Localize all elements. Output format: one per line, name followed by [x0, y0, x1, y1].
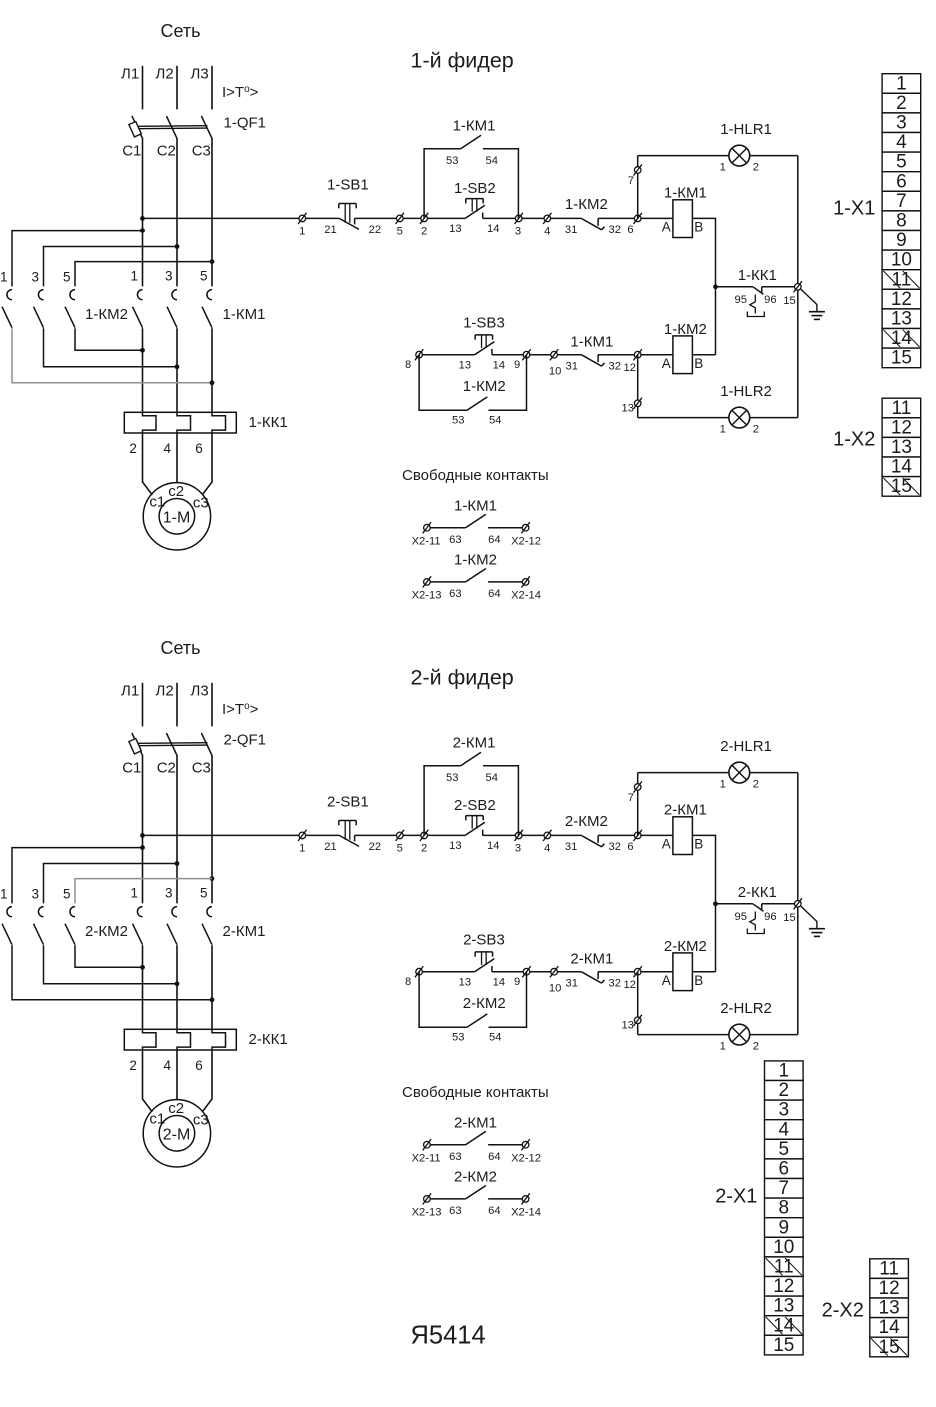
svg-text:6: 6 [195, 441, 203, 456]
terminal cell 14 [765, 1316, 804, 1336]
svg-text:1: 1 [720, 423, 726, 435]
svg-text:Свободные контакты: Свободные контакты [402, 1084, 549, 1101]
svg-text:54: 54 [489, 1032, 501, 1044]
svg-text:5: 5 [397, 843, 403, 855]
svg-text:13: 13 [459, 360, 471, 372]
terminal cell 3 [765, 1100, 804, 1120]
terminal cell 14 [870, 1318, 909, 1338]
svg-text:53: 53 [452, 415, 464, 427]
wire [638, 155, 729, 157]
svg-text:32: 32 [609, 841, 621, 853]
wire [691, 971, 716, 973]
no-contact 1-КМ2 53-54 branch [419, 355, 467, 411]
svg-text:2-КМ2: 2-КМ2 [463, 995, 506, 1012]
svg-text:64: 64 [488, 534, 500, 546]
svg-text:63: 63 [449, 1151, 461, 1163]
terminal 6 [634, 213, 642, 224]
terminal 3 [515, 830, 523, 841]
terminal 12 [634, 966, 642, 977]
svg-text:2-КМ2: 2-КМ2 [85, 923, 128, 940]
svg-text:9: 9 [779, 1217, 790, 1238]
svg-text:15: 15 [891, 476, 912, 497]
svg-text:1-КМ1: 1-КМ1 [570, 333, 613, 350]
wire [750, 1034, 798, 1036]
motor 1-М [143, 483, 210, 550]
wire phase rail [176, 755, 178, 904]
wire motor lead 6 [202, 433, 212, 495]
svg-text:1: 1 [299, 226, 305, 238]
svg-text:63: 63 [449, 588, 461, 600]
wire coil link [691, 218, 716, 354]
svg-text:1-SB2: 1-SB2 [454, 180, 496, 197]
terminal cell 15 [870, 1337, 909, 1357]
svg-text:53: 53 [452, 1032, 464, 1044]
terminal cell 14 [882, 457, 921, 477]
svg-text:3: 3 [165, 269, 173, 284]
node tap [140, 845, 145, 850]
ground [801, 289, 817, 312]
terminal cell 11 [882, 270, 921, 290]
svg-text:4: 4 [544, 226, 550, 238]
svg-text:14: 14 [493, 360, 505, 372]
terminal cell 15 [882, 477, 921, 497]
svg-text:13: 13 [449, 840, 461, 852]
wire rung2 [598, 971, 673, 973]
contactor contact 2-КМ1 pole [207, 907, 212, 917]
wire lamp1 branch [637, 156, 639, 219]
svg-text:2: 2 [129, 1058, 137, 1073]
svg-text:2: 2 [129, 441, 137, 456]
svg-text:12: 12 [624, 979, 636, 991]
svg-text:1: 1 [0, 270, 8, 285]
svg-text:2-SB1: 2-SB1 [327, 793, 369, 810]
svg-text:2: 2 [753, 423, 759, 435]
svg-text:1: 1 [720, 1040, 726, 1052]
svg-text:96: 96 [764, 911, 776, 923]
svg-text:1-й фидер: 1-й фидер [411, 49, 514, 73]
svg-text:С1: С1 [122, 760, 141, 777]
svg-text:9: 9 [514, 976, 520, 988]
coil 1-КМ2 [673, 336, 693, 374]
contactor contact 2-КМ2 pole [38, 907, 43, 917]
svg-text:В: В [694, 356, 703, 371]
wire rung2 [492, 354, 581, 356]
wire motor lead 2 [143, 1050, 153, 1112]
svg-text:с2: с2 [168, 483, 184, 500]
svg-text:10: 10 [549, 983, 561, 995]
terminal cell 1 [765, 1061, 804, 1081]
wire rung1 [598, 217, 673, 219]
svg-text:Сеть: Сеть [161, 21, 201, 41]
svg-text:1-SB3: 1-SB3 [463, 315, 505, 332]
svg-text:15: 15 [773, 1335, 794, 1356]
svg-text:Свободные контакты: Свободные контакты [402, 467, 549, 484]
svg-text:1-SB1: 1-SB1 [327, 176, 369, 193]
svg-text:13: 13 [891, 309, 912, 330]
terminal cell 8 [882, 211, 921, 231]
wire phase rail [142, 138, 144, 287]
no-contact 2-КМ1 53-54 branch [424, 766, 461, 836]
node tap [175, 861, 180, 866]
terminal 3 [515, 213, 523, 224]
svg-text:12: 12 [891, 289, 912, 310]
terminal cell 13 [765, 1296, 804, 1316]
svg-text:95: 95 [735, 294, 747, 306]
svg-text:X2-14: X2-14 [511, 590, 541, 602]
node join [210, 997, 215, 1002]
svg-text:1-QF1: 1-QF1 [224, 115, 267, 132]
svg-text:3: 3 [31, 887, 39, 902]
wire [750, 417, 798, 419]
svg-text:31: 31 [566, 978, 578, 990]
wire rung2 [419, 354, 475, 356]
svg-text:1-КК1: 1-КК1 [738, 267, 777, 284]
svg-text:13: 13 [622, 1020, 634, 1032]
node join [140, 965, 145, 970]
terminal cell 15 [882, 348, 921, 368]
node coil junction [713, 284, 718, 289]
svg-text:1: 1 [130, 269, 138, 284]
terminal cell 4 [765, 1120, 804, 1140]
svg-text:15: 15 [891, 348, 912, 369]
terminal cell 9 [882, 231, 921, 251]
svg-text:2-КМ1: 2-КМ1 [454, 1114, 497, 1131]
no-contact 2-КМ2 53-54 branch [419, 972, 467, 1028]
wire [750, 772, 798, 774]
svg-text:10: 10 [773, 1237, 794, 1258]
svg-text:21: 21 [324, 224, 336, 236]
svg-text:1-КМ1: 1-КМ1 [223, 306, 266, 323]
thermal element pole [177, 1030, 191, 1051]
svg-text:22: 22 [369, 224, 381, 236]
svg-text:10: 10 [891, 250, 912, 271]
svg-text:2: 2 [753, 162, 759, 174]
svg-text:3: 3 [515, 843, 521, 855]
svg-text:1-HLR1: 1-HLR1 [720, 121, 772, 138]
terminal cell 2 [882, 93, 921, 113]
svg-text:14: 14 [773, 1315, 795, 1336]
contactor contact 1-КМ1 pole [137, 290, 142, 300]
wire reversing lower [44, 945, 178, 984]
wire [716, 903, 753, 905]
svg-text:5: 5 [63, 270, 71, 285]
svg-text:5: 5 [397, 226, 403, 238]
pushbutton 1-SB3 [475, 342, 495, 355]
terminal cell 13 [882, 437, 921, 457]
svg-text:1-КМ1: 1-КМ1 [454, 497, 497, 514]
svg-text:14: 14 [487, 223, 499, 235]
thermal-relay 1-КК1 box [124, 412, 236, 433]
wire rung2 [598, 354, 673, 356]
ground [801, 906, 817, 929]
svg-text:12: 12 [891, 417, 912, 438]
wire reversing upper [12, 848, 143, 904]
svg-text:I>To>: I>To> [222, 701, 259, 718]
svg-text:21: 21 [324, 841, 336, 853]
thermal element pole [212, 413, 226, 434]
wire [211, 683, 213, 727]
svg-text:8: 8 [405, 359, 411, 371]
free no-contact 2-КМ1 63-64 [423, 1139, 431, 1150]
wire [762, 286, 798, 288]
svg-text:54: 54 [486, 772, 498, 784]
svg-text:Л3: Л3 [191, 66, 209, 83]
wire [762, 903, 798, 905]
lamp 1-HLR2 [729, 407, 750, 428]
svg-text:А: А [662, 356, 671, 371]
svg-text:14: 14 [487, 840, 499, 852]
svg-text:64: 64 [488, 1205, 500, 1217]
svg-text:1-HLR2: 1-HLR2 [720, 383, 772, 400]
svg-text:с1: с1 [149, 493, 165, 510]
terminal cell 12 [882, 418, 921, 438]
contactor contact 1-КМ2 pole [70, 290, 75, 300]
terminal 13 [634, 398, 642, 409]
wire phase rail [211, 755, 213, 904]
node join [210, 380, 215, 385]
node tap [140, 228, 145, 233]
svg-text:В: В [694, 973, 703, 988]
svg-text:7: 7 [628, 175, 634, 187]
thermal element pole [177, 413, 191, 434]
terminal cell 8 [765, 1198, 804, 1218]
terminal cell 11 [882, 398, 921, 418]
terminal 12 [634, 349, 642, 360]
svg-text:15: 15 [783, 912, 795, 924]
svg-text:2-КК1: 2-КК1 [738, 884, 777, 901]
thermal element pole [143, 413, 157, 434]
terminal 4 [543, 830, 551, 841]
svg-text:с3: с3 [193, 495, 209, 512]
svg-text:8: 8 [405, 976, 411, 988]
svg-text:I>To>: I>To> [222, 84, 259, 101]
node join [140, 348, 145, 353]
nc-contact 2-КМ2 31-32 [581, 835, 601, 846]
svg-text:2-КМ2: 2-КМ2 [565, 813, 608, 830]
svg-text:2: 2 [421, 226, 427, 238]
svg-text:5: 5 [200, 886, 208, 901]
svg-text:2: 2 [753, 1040, 759, 1052]
wire phase rail [142, 755, 144, 904]
svg-text:1-КМ1: 1-КМ1 [664, 185, 707, 202]
motor 2-М [143, 1100, 210, 1167]
terminal 7 [634, 164, 642, 175]
free no-contact 2-КМ2 63-64 [423, 1193, 431, 1204]
contactor contact 1-КМ2 pole [38, 290, 43, 300]
svg-text:X2-13: X2-13 [412, 1207, 442, 1219]
svg-text:32: 32 [609, 978, 621, 990]
coil 1-КМ1 [673, 200, 693, 238]
svg-text:с3: с3 [193, 1112, 209, 1129]
svg-text:64: 64 [488, 1151, 500, 1163]
wire reversing lower [12, 945, 212, 1000]
svg-text:13: 13 [449, 223, 461, 235]
svg-text:А: А [662, 837, 671, 852]
wire rung1 [355, 217, 466, 219]
terminal 5 [396, 213, 404, 224]
wire [638, 1034, 729, 1036]
wire [638, 772, 729, 774]
svg-text:2-М: 2-М [163, 1126, 191, 1143]
wire [142, 66, 144, 110]
terminal 7 [634, 781, 642, 792]
wire [211, 66, 213, 110]
wire control feed [143, 834, 340, 836]
svg-text:с2: с2 [168, 1100, 184, 1117]
svg-text:12: 12 [773, 1276, 794, 1297]
coil 2-КМ2 [673, 953, 693, 991]
terminal cell 13 [882, 309, 921, 329]
svg-text:1: 1 [720, 779, 726, 791]
svg-text:54: 54 [486, 155, 498, 167]
contactor contact 2-КМ2 pole [70, 907, 75, 917]
wire reversing lower [75, 328, 143, 350]
svg-text:X2-11: X2-11 [412, 535, 441, 547]
svg-text:6: 6 [627, 841, 633, 853]
svg-text:7: 7 [779, 1178, 790, 1199]
terminal 6 [634, 830, 642, 841]
svg-text:63: 63 [449, 1205, 461, 1217]
svg-text:63: 63 [449, 534, 461, 546]
thermal-relay 2-КК1 box [124, 1029, 236, 1050]
svg-text:X2-12: X2-12 [511, 535, 541, 547]
pushbutton 2-SB1 [339, 835, 359, 846]
svg-text:1: 1 [0, 887, 8, 902]
svg-text:С2: С2 [157, 760, 176, 777]
wire motor lead 2 [143, 433, 153, 495]
wire motor lead 6 [202, 1050, 212, 1112]
svg-text:15: 15 [879, 1337, 900, 1358]
svg-text:1-X2: 1-X2 [833, 429, 875, 451]
svg-text:X2-12: X2-12 [511, 1152, 541, 1164]
svg-text:7: 7 [896, 191, 907, 212]
svg-text:14: 14 [891, 328, 913, 349]
contactor contact 1-КМ1 pole [207, 290, 212, 300]
svg-text:1: 1 [779, 1061, 790, 1082]
terminal cell 1 [882, 74, 921, 94]
node control tap [140, 833, 145, 838]
wire phase rail [211, 138, 213, 287]
svg-text:2-X2: 2-X2 [822, 1300, 864, 1322]
svg-text:14: 14 [879, 1317, 901, 1338]
pushbutton 2-SB2 [465, 822, 485, 835]
contactor contact 2-КМ1 pole [172, 907, 177, 917]
svg-text:4: 4 [164, 441, 172, 456]
node tap [210, 259, 215, 264]
svg-text:2-QF1: 2-QF1 [224, 732, 267, 749]
wire rung2 [492, 971, 581, 973]
wire motor lead 4 [176, 433, 178, 483]
svg-text:1-КМ2: 1-КМ2 [565, 196, 608, 213]
terminal cell 6 [882, 172, 921, 192]
svg-text:9: 9 [896, 230, 907, 251]
terminal 15 [794, 281, 802, 292]
svg-text:53: 53 [446, 772, 458, 784]
wire rung1 [355, 834, 466, 836]
svg-text:1-КМ2: 1-КМ2 [85, 306, 128, 323]
terminal 8 [415, 349, 423, 360]
wire reversing upper [12, 231, 143, 287]
svg-text:11: 11 [892, 398, 912, 419]
terminal 15 [794, 898, 802, 909]
wire [638, 417, 729, 419]
svg-text:96: 96 [764, 294, 776, 306]
terminal cell 13 [870, 1298, 909, 1318]
wire [176, 683, 178, 727]
svg-text:Я5414: Я5414 [411, 1322, 486, 1350]
svg-text:2-КМ2: 2-КМ2 [664, 938, 707, 955]
terminal cell 7 [882, 191, 921, 211]
node join [175, 981, 180, 986]
svg-text:6: 6 [627, 224, 633, 236]
terminal 1 [298, 213, 306, 224]
svg-text:2-HLR2: 2-HLR2 [720, 1000, 772, 1017]
terminal cell 10 [765, 1237, 804, 1257]
terminal cell 11 [870, 1259, 909, 1279]
terminal cell 15 [765, 1335, 804, 1355]
svg-text:2-КК1: 2-КК1 [249, 1031, 288, 1048]
terminal cell 6 [765, 1159, 804, 1179]
wire lamp return [797, 156, 799, 418]
terminal 5 [396, 830, 404, 841]
terminal cell 10 [882, 250, 921, 270]
svg-text:2-SB3: 2-SB3 [463, 932, 505, 949]
svg-text:С3: С3 [192, 143, 211, 160]
free no-contact 1-КМ1 63-64 [423, 522, 431, 533]
svg-text:14: 14 [493, 977, 505, 989]
wire reversing lower [75, 945, 143, 967]
svg-text:3: 3 [515, 226, 521, 238]
svg-text:32: 32 [609, 361, 621, 373]
svg-text:С2: С2 [157, 143, 176, 160]
lamp 2-HLR2 [729, 1024, 750, 1045]
terminal 4 [543, 213, 551, 224]
terminal cell 2 [765, 1081, 804, 1101]
wire motor lead 4 [176, 1050, 178, 1100]
coil 2-КМ1 [673, 817, 693, 855]
wire reversing upper [75, 879, 212, 904]
svg-text:2: 2 [753, 779, 759, 791]
svg-text:54: 54 [489, 415, 501, 427]
svg-text:2: 2 [779, 1080, 790, 1101]
wire lamp return [797, 773, 799, 1035]
svg-text:1-КМ2: 1-КМ2 [454, 552, 497, 569]
svg-text:11: 11 [774, 1257, 794, 1278]
contactor contact 2-КМ2 pole [7, 907, 12, 917]
thermal nc-contact 1-КК1 95-96 [753, 287, 764, 295]
svg-text:Л1: Л1 [121, 683, 139, 700]
terminal 13 [634, 1015, 642, 1026]
svg-text:1: 1 [896, 73, 907, 94]
free no-contact 1-КМ2 63-64 [423, 576, 431, 587]
svg-text:11: 11 [879, 1258, 899, 1279]
svg-text:4: 4 [164, 1058, 172, 1073]
svg-text:2: 2 [896, 93, 907, 114]
svg-text:1-X1: 1-X1 [833, 198, 875, 220]
wire phase rail [176, 138, 178, 287]
svg-text:13: 13 [891, 437, 912, 458]
terminal 9 [522, 349, 530, 360]
terminal 10 [550, 349, 558, 360]
svg-text:13: 13 [879, 1298, 900, 1319]
svg-text:3: 3 [31, 270, 39, 285]
svg-text:Л1: Л1 [121, 66, 139, 83]
svg-text:4: 4 [896, 132, 907, 153]
thermal element pole [143, 1030, 157, 1051]
svg-text:10: 10 [549, 366, 561, 378]
svg-text:4: 4 [544, 843, 550, 855]
svg-text:1: 1 [299, 843, 305, 855]
